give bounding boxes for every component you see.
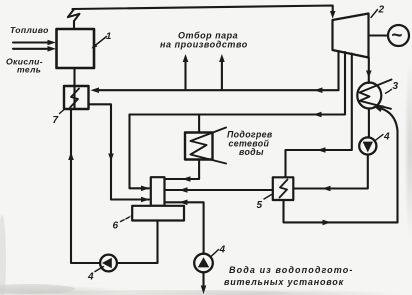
svg-text:5: 5 (257, 200, 263, 211)
svg-text:4: 4 (87, 272, 94, 283)
feed pump P4b (100, 255, 117, 272)
label 4c leader (212, 250, 219, 257)
svg-text:7: 7 (53, 115, 59, 126)
svg-text:1: 1 (106, 31, 112, 42)
wire: feedwater through heater 7 to boiler (73, 68, 75, 109)
heater 7 zigzag (70, 89, 79, 108)
wire: extraction I header (production steam) (91, 51, 339, 93)
label 4b leader (95, 267, 104, 272)
generator G (388, 25, 409, 46)
wire: feedwater line to heater 7 and boiler (68, 109, 100, 263)
fuel arrow (13, 40, 56, 46)
network water heater (185, 133, 213, 160)
wire: makeup water to deaerator (166, 200, 204, 254)
wire: steam to network heater (198, 115, 200, 133)
wire: network heater drain to deaerator (166, 160, 199, 182)
label 6 leader (121, 216, 132, 222)
svg-text:3: 3 (393, 81, 399, 92)
svg-text:Вода из водоподгото-: Вода из водоподгото- (229, 265, 353, 275)
label 4a leader (375, 135, 384, 142)
condenser zigzag (360, 80, 392, 109)
svg-text:на производство: на производство (160, 40, 248, 50)
wire: extraction II header (130, 52, 346, 117)
wire: condenser to condensate pump (368, 109, 370, 138)
svg-text:~: ~ (391, 26, 402, 47)
production steam arrow a (183, 54, 189, 90)
turbine T2 (333, 14, 369, 58)
oxidizer arrow (13, 46, 56, 52)
wire: water from treatment plant (201, 272, 207, 294)
label 1 leader (92, 37, 107, 49)
heater 5 zigzag (280, 180, 288, 198)
svg-text:2: 2 (378, 5, 385, 16)
label 7 leader (60, 110, 64, 114)
svg-text:4: 4 (383, 132, 390, 143)
wire: heater 7 drain to deaerator (89, 104, 150, 202)
wire: deaerator tank to feed pump (117, 221, 158, 264)
wire: extraction II branch to deaerator (130, 115, 150, 192)
deaerator tank (132, 206, 184, 221)
svg-text:тель: тель (17, 65, 41, 75)
heater 7 (box) (64, 86, 89, 109)
production steam arrow b (219, 54, 225, 90)
wire: main steam line boiler to turbine (73, 6, 333, 30)
condenser K3 (357, 83, 381, 109)
deaerator column 6 (151, 177, 165, 206)
wire: extraction III to heater 5 (286, 54, 352, 178)
break zigzag on boiler riser (68, 10, 80, 21)
label 2 leader (371, 10, 378, 18)
svg-text:6: 6 (113, 221, 119, 232)
heater zigzag (191, 128, 227, 164)
makeup pump P4c (194, 254, 213, 273)
wire: heater 5 drain to condenser loop (284, 200, 398, 225)
wire: heater 5 to deaerator (166, 187, 273, 193)
svg-text:4: 4 (219, 245, 226, 256)
wire: shaft turbine-generator (369, 34, 389, 36)
heater H5 (273, 177, 294, 200)
condensate pump P4a (359, 137, 376, 154)
boiler B1 (57, 29, 95, 68)
arrow into turbine inlet (330, 11, 336, 19)
wire: condensate pump discharge to heater 5 (294, 155, 368, 192)
label 5 leader (264, 195, 272, 200)
svg-text:воды: воды (239, 147, 264, 157)
svg-text:вительных установок: вительных установок (224, 277, 344, 287)
svg-text:Топливо: Топливо (10, 25, 49, 35)
label 3 leader (385, 89, 392, 94)
wire: turbine exhaust to condenser (366, 58, 372, 83)
wire: heater5 drain return to condenser (curve) (374, 105, 398, 222)
